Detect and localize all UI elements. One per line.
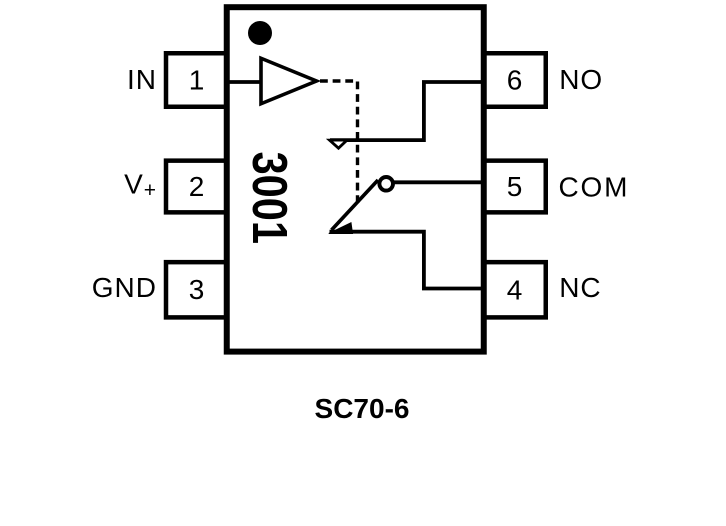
label NO <box>559 64 603 95</box>
switch pole <box>332 180 379 230</box>
label COM <box>559 171 630 202</box>
pin box 4 <box>484 262 546 317</box>
NO contact chevron <box>330 140 348 148</box>
label V+ <box>124 168 156 202</box>
pin number 2 <box>189 171 205 202</box>
svg-text:2: 2 <box>189 171 205 202</box>
part number 3001 <box>242 152 296 245</box>
pole arrowhead <box>329 223 353 234</box>
dashed control line <box>320 81 358 203</box>
svg-text:COM: COM <box>559 171 630 202</box>
svg-text:GND: GND <box>92 272 157 303</box>
pin number 3 <box>189 274 205 305</box>
svg-text:NC: NC <box>559 272 601 303</box>
label GND <box>92 272 157 303</box>
pin number 6 <box>507 65 523 96</box>
pin box 3 <box>166 262 227 317</box>
svg-text:6: 6 <box>507 65 523 96</box>
pin box 5 <box>484 161 546 213</box>
COM pivot circle <box>379 177 393 191</box>
pin box 2 <box>166 161 227 213</box>
IC body U1 <box>227 7 484 351</box>
wire NC contact to pin4 <box>330 232 485 289</box>
wire pin5 to COM pivot <box>393 180 484 184</box>
pin box 1 <box>166 53 227 107</box>
label NC <box>559 272 601 303</box>
label IN <box>127 64 157 95</box>
svg-text:1: 1 <box>189 65 205 96</box>
svg-text:3: 3 <box>189 274 205 305</box>
wire pin6 to NO contact <box>330 82 484 140</box>
svg-text:3001: 3001 <box>242 152 296 245</box>
buffer driver A1 <box>261 58 317 104</box>
pin number 4 <box>507 275 523 306</box>
pin number 5 <box>507 171 523 202</box>
svg-text:5: 5 <box>507 171 523 202</box>
svg-text:SC70-6: SC70-6 <box>315 393 410 424</box>
pin-1 index dot <box>248 21 272 45</box>
svg-text:4: 4 <box>507 275 523 306</box>
svg-text:IN: IN <box>127 64 157 95</box>
pin number 1 <box>189 65 205 96</box>
svg-text:NO: NO <box>559 64 603 95</box>
wire pin1 to buffer <box>226 80 263 84</box>
pin box 6 <box>484 53 546 107</box>
package label SC70-6 <box>315 393 410 424</box>
